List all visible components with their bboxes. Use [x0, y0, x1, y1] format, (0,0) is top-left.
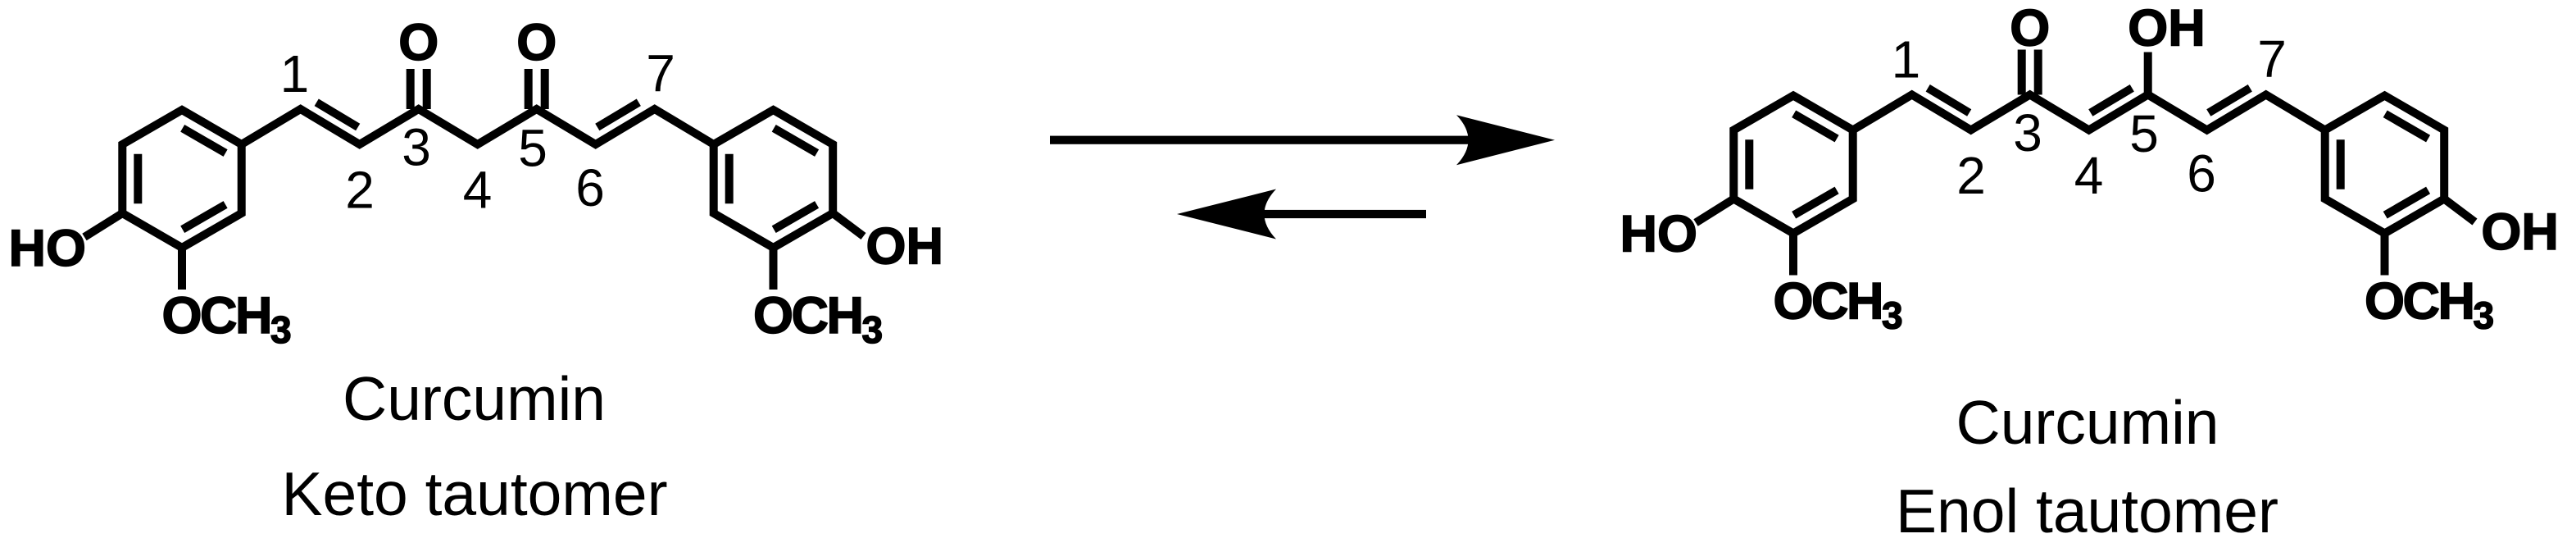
svg-text:1: 1: [280, 44, 310, 103]
svg-text:Keto tautomer: Keto tautomer: [281, 459, 667, 528]
svg-text:1: 1: [1892, 30, 1921, 89]
svg-text:6: 6: [575, 158, 605, 217]
svg-text:OCH3: OCH3: [2365, 273, 2493, 337]
svg-text:5: 5: [518, 119, 547, 178]
svg-text:O: O: [398, 14, 438, 71]
svg-text:HO: HO: [1620, 206, 1698, 263]
svg-text:3: 3: [402, 118, 431, 177]
svg-text:2: 2: [1956, 146, 1986, 205]
svg-text:Curcumin: Curcumin: [1956, 388, 2219, 457]
svg-text:4: 4: [463, 161, 493, 220]
svg-text:OH: OH: [2481, 203, 2559, 261]
svg-text:7: 7: [646, 44, 675, 103]
svg-text:6: 6: [2187, 144, 2216, 203]
svg-text:5: 5: [2129, 104, 2159, 163]
svg-text:Enol tautomer: Enol tautomer: [1896, 477, 2278, 545]
svg-text:OCH3: OCH3: [753, 287, 882, 351]
svg-text:OCH3: OCH3: [162, 287, 291, 351]
svg-text:4: 4: [2074, 146, 2104, 205]
svg-text:OCH3: OCH3: [1774, 273, 1902, 337]
svg-text:O: O: [2010, 0, 2050, 57]
svg-text:3: 3: [2013, 103, 2042, 162]
svg-text:OH: OH: [866, 218, 944, 276]
svg-text:2: 2: [345, 161, 375, 220]
svg-text:O: O: [516, 14, 557, 71]
svg-text:7: 7: [2257, 30, 2287, 89]
svg-text:OH: OH: [2128, 0, 2206, 57]
svg-text:Curcumin: Curcumin: [343, 364, 606, 433]
svg-text:HO: HO: [9, 220, 87, 277]
